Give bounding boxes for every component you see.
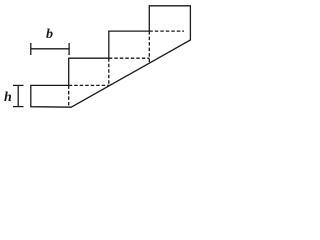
dashed tread extension at y=31.1 (149, 30, 184, 32)
dashed riser extension at x=68.7 (68, 85, 70, 106)
dimension b left tick (30, 43, 32, 55)
dashed tread extension at y=58.2 (109, 57, 150, 59)
dashed riser extension at x=108.8 (108, 58, 110, 86)
dimension line h (17, 85, 19, 106)
dimension h bottom tick (13, 106, 24, 108)
svg-text:b: b (46, 27, 53, 42)
dashed riser extension at x=149.3 (148, 31, 150, 63)
staircase outline (31, 6, 191, 107)
dimension b right tick (68, 43, 70, 55)
dashed tread extension at y=85.4 (69, 84, 110, 86)
svg-text:h: h (4, 90, 12, 105)
dimension line b (31, 48, 69, 50)
dimension h top tick (13, 84, 24, 86)
